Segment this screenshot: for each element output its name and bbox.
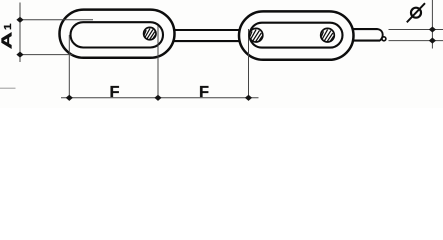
- wire segment: connecting link bar between L1 and L2 (top edge): [171, 29, 242, 31]
- wire segment: tail bar after L2 (bottom edge): [351, 40, 380, 42]
- svg-text:A: A: [0, 31, 16, 49]
- tail bar cut-end cap: [377, 29, 382, 40]
- chain link L2 outer contour: [239, 11, 354, 59]
- svg-text:F: F: [199, 84, 209, 101]
- scan artifact line bottom left: [0, 87, 16, 89]
- extension line for F at x=158: [157, 26, 159, 101]
- diameter bottom arrow: [429, 38, 436, 44]
- wire segment: connecting link bar between L1 and L2 (bottom edge): [172, 40, 241, 42]
- chain link L1 inner contour (hole): [71, 22, 164, 47]
- svg-text:F: F: [110, 84, 120, 101]
- wire cross-section C3 in L2 right end (hatched): [321, 28, 335, 42]
- paper background: [0, 0, 443, 108]
- dimension A1 vertical line: [19, 3, 21, 63]
- diameter symbol: [407, 3, 425, 22]
- dimension A1 bottom arrow: [16, 52, 23, 58]
- diameter top extension line: [389, 29, 443, 31]
- wire cross-section C2 in L2 left end (hatched): [249, 28, 263, 42]
- tail bar cut-end droplet: [382, 37, 386, 41]
- extension line for F at x=248.5: [248, 29, 250, 101]
- dimension A1 top extension line: [20, 19, 93, 21]
- diameter bottom extension line: [389, 40, 443, 42]
- dimension A1 bottom extension line: [20, 54, 73, 56]
- wire cross-section C1 in L1 right end (hatched): [144, 27, 156, 39]
- chain link L1 outer contour: [60, 10, 175, 58]
- chain link L2 inner contour (hole): [250, 23, 343, 48]
- dimension A1 top arrow: [16, 17, 23, 23]
- F arrow 2: [154, 95, 161, 101]
- diameter dimension vertical line: [431, 0, 433, 49]
- F arrow 1: [66, 95, 73, 101]
- svg-text:1: 1: [2, 23, 14, 30]
- wire segment: tail bar after L2 (top edge): [351, 28, 378, 30]
- F arrow 3: [245, 95, 252, 101]
- diameter top arrow: [429, 26, 436, 32]
- dimension F baseline: [61, 97, 259, 99]
- extension line for F at x=69: [68, 35, 70, 101]
